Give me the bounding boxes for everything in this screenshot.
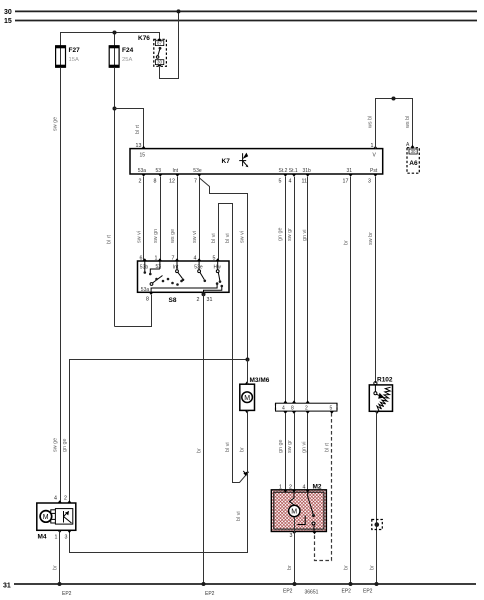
node splice arrow into pump return wire: [243, 472, 247, 477]
wire K7 pin11 31b down (gn vi): [307, 177, 309, 403]
svg-text:R102: R102: [377, 377, 393, 384]
node junction fuse rail: [113, 31, 117, 35]
svg-text:8: 8: [291, 406, 294, 412]
svg-text:EP2: EP2: [283, 589, 293, 595]
svg-text:4: 4: [282, 406, 285, 412]
connector A6 pin 30: [406, 142, 419, 173]
wire bus 31 (ground): [14, 583, 476, 585]
K7 pin 12 (Int): [169, 168, 180, 185]
svg-text:gn ge: gn ge: [62, 439, 68, 453]
wire bus 15: [15, 20, 477, 22]
wire K7 pin5 St.2 down (gn ge): [285, 177, 287, 403]
svg-text:br: br: [370, 565, 376, 570]
S8 internal contacts: [144, 261, 224, 292]
svg-text:15: 15: [140, 153, 146, 159]
svg-text:br: br: [344, 565, 350, 570]
wire K7 pin3 Pst to R102 (sw br): [375, 177, 377, 383]
S8 pin 4 (53e): [194, 256, 203, 271]
svg-text:sw vi: sw vi: [192, 231, 198, 243]
node junction on bus 30: [177, 9, 181, 13]
svg-text:M: M: [291, 509, 297, 516]
motor M4 windscreen wiper motor: [37, 496, 76, 541]
svg-text:sw gn: sw gn: [153, 229, 159, 243]
K7 pin 8 (53): [154, 168, 163, 185]
svg-text:17: 17: [343, 179, 349, 185]
svg-text:gn vi: gn vi: [302, 230, 308, 241]
svg-text:53a: 53a: [141, 287, 150, 293]
svg-text:30: 30: [411, 149, 416, 154]
connector bar X pins 4 8 2 5: [276, 400, 338, 414]
svg-text:1: 1: [55, 535, 58, 541]
wire K7 pin7 branch to washer pump M3/M6 (sw vi): [200, 177, 248, 360]
S8 pin 7 (Int): [172, 256, 180, 271]
svg-text:sw ge: sw ge: [53, 117, 59, 131]
svg-text:sw ge: sw ge: [53, 438, 59, 452]
wire M2 pin3 to ground EP2 (br): [294, 517, 296, 584]
svg-text:31b: 31b: [303, 168, 312, 174]
svg-text:1: 1: [155, 256, 158, 262]
wire M3/M6 return to M4 pin3 (br / bl vi): [70, 410, 248, 552]
K7 pin 5 (St.2): [279, 168, 288, 185]
S8 pin 6 (53b): [140, 256, 149, 271]
motor M3/M6 washer pump: [240, 377, 270, 413]
svg-text:11: 11: [302, 179, 308, 185]
svg-text:53a: 53a: [138, 168, 147, 174]
svg-text:M4: M4: [38, 534, 47, 541]
node junction pump feed: [246, 358, 250, 362]
switch S8 wiper column switch: [138, 261, 230, 304]
wire K7 pin17 31 to ground (br): [350, 177, 352, 584]
K7 pin 7 (53e): [193, 168, 202, 185]
K7 pin 1 (V) top: [371, 143, 378, 159]
svg-text:A6: A6: [409, 160, 418, 167]
svg-text:5: 5: [330, 406, 333, 412]
svg-text:S8: S8: [169, 297, 177, 304]
node splice 36651 box: [372, 520, 383, 530]
wire wash-wipe link M4 pin2 rail: [70, 360, 248, 503]
K7 pin 17 (31): [343, 168, 353, 185]
svg-text:15: 15: [4, 18, 12, 25]
svg-text:M3/M6: M3/M6: [250, 377, 270, 384]
wire K7 pin2 53a to S8 pin6 (sw vi): [143, 177, 145, 261]
S8 pin 1 (53): [155, 256, 163, 270]
svg-text:2: 2: [197, 297, 200, 303]
svg-text:br: br: [240, 447, 246, 452]
svg-text:St.1: St.1: [289, 168, 298, 174]
svg-text:br: br: [196, 448, 202, 453]
svg-text:25A: 25A: [122, 57, 132, 63]
wire K7 pin8 53 to S8 pin1 (sw gn): [160, 177, 162, 261]
svg-text:EP2: EP2: [205, 591, 215, 597]
svg-text:2: 2: [289, 485, 292, 491]
wire from bus 30 down to relay K76 terminal 30: [160, 11, 179, 78]
wire F27 to M4 pin4 (sw ge): [60, 67, 62, 502]
svg-text:13: 13: [136, 143, 142, 149]
node ground EP2 S8: [202, 582, 206, 586]
svg-text:K7: K7: [222, 158, 231, 165]
svg-text:4: 4: [289, 179, 292, 185]
wire branch to K7 pin13 (bl rt): [115, 109, 144, 149]
svg-text:br: br: [53, 565, 59, 570]
svg-text:M: M: [43, 514, 49, 521]
svg-text:bl rt: bl rt: [325, 443, 331, 452]
svg-text:M: M: [244, 395, 250, 402]
svg-text:gn ge: gn ge: [278, 228, 284, 242]
node ground EP2 M2: [293, 582, 297, 586]
wire K76 87 to fuse rail: [61, 33, 160, 46]
svg-text:sw vi: sw vi: [137, 231, 143, 243]
S8 pin 5 (Hw): [213, 256, 222, 271]
K7 pin 11 (31b): [302, 168, 312, 185]
svg-text:30: 30: [157, 60, 162, 65]
motor M2 rear wiper motor: [271, 484, 326, 535]
svg-text:8: 8: [154, 179, 157, 185]
svg-text:8: 8: [146, 297, 149, 303]
K7 pin 3 (Pst): [368, 168, 378, 185]
K7 pin 2 (53a): [138, 168, 147, 185]
svg-text:12: 12: [169, 179, 175, 185]
relay K7 box: [130, 149, 383, 174]
svg-text:53b: 53b: [140, 264, 149, 270]
K7 pin 4 (St.1): [289, 168, 298, 185]
svg-text:4: 4: [54, 496, 57, 502]
wire bar pin5 dashed to M2 (bl rt): [315, 413, 332, 561]
svg-text:4: 4: [194, 256, 197, 262]
svg-text:30: 30: [4, 9, 12, 16]
svg-text:6: 6: [140, 256, 143, 262]
svg-text:53: 53: [156, 168, 162, 174]
svg-text:EP2: EP2: [342, 589, 352, 595]
svg-text:31: 31: [207, 297, 213, 303]
wire S8 pin5 loop to bl vi drop: [219, 204, 248, 483]
svg-text:bl vi: bl vi: [225, 442, 231, 452]
svg-text:Pst: Pst: [370, 168, 378, 174]
svg-text:15A: 15A: [69, 57, 79, 63]
wire K7 pin4 St.1 down (sw gr): [294, 177, 296, 403]
relay K76: [138, 35, 166, 66]
svg-text:ws ge: ws ge: [170, 229, 176, 244]
wire bus 30: [15, 10, 477, 12]
svg-text:sw vi: sw vi: [240, 231, 246, 243]
svg-text:7: 7: [194, 179, 197, 185]
svg-text:3: 3: [368, 179, 371, 185]
node junction F24 branch: [113, 107, 117, 111]
svg-text:F27: F27: [69, 47, 81, 54]
wire bar pin4 to M2 pin1 (gn ge): [285, 413, 287, 490]
svg-text:3: 3: [290, 533, 293, 539]
svg-text:K76: K76: [138, 35, 150, 42]
S8 pin 8 (53a) bottom: [141, 287, 154, 303]
node ground EP2 for pin17: [349, 582, 353, 586]
svg-text:Int: Int: [173, 264, 179, 270]
svg-text:87: 87: [157, 41, 162, 46]
svg-text:31: 31: [347, 168, 353, 174]
svg-text:53e: 53e: [193, 168, 202, 174]
svg-text:2: 2: [305, 406, 308, 412]
svg-text:ws bl: ws bl: [368, 116, 374, 129]
svg-text:br: br: [344, 240, 350, 245]
wire S8 pin2/31 to ground EP2 (br): [203, 294, 205, 584]
wire R102 to ground (br): [376, 411, 378, 584]
svg-text:EP2: EP2: [62, 591, 72, 597]
svg-text:bl rt: bl rt: [107, 235, 113, 244]
wire K7 pin1 to connector A6 (ws bl): [376, 99, 413, 149]
wire bar pin8 to M2 pin2 (sw gr): [294, 413, 296, 490]
svg-text:F24: F24: [122, 47, 134, 54]
node ground EP2 M4: [58, 582, 62, 586]
svg-text:31: 31: [3, 583, 11, 590]
wire K7 pin12 Int to S8 pin7 (ws ge): [177, 177, 179, 261]
op-amp K7 internal symbol: [239, 153, 248, 168]
svg-text:Int: Int: [173, 168, 179, 174]
wire stub F24 top: [114, 33, 116, 46]
svg-text:bl vi: bl vi: [211, 233, 217, 243]
svg-text:1: 1: [371, 143, 374, 149]
svg-text:sw gr: sw gr: [287, 228, 293, 241]
svg-text:4: 4: [303, 485, 306, 491]
svg-text:5: 5: [213, 256, 216, 262]
K7 pin 13 (15) top: [136, 143, 146, 159]
svg-text:5: 5: [279, 179, 282, 185]
wire F24 down (bl rt): [114, 67, 116, 326]
fuse F24 25A: [109, 45, 133, 67]
svg-text:gn ge: gn ge: [278, 440, 284, 454]
svg-text:2: 2: [64, 496, 67, 502]
svg-text:bl vi: bl vi: [225, 233, 231, 243]
svg-text:br: br: [287, 565, 293, 570]
wire bar pin2 to M2 pin4 (gn vi): [307, 413, 309, 490]
node ground EP2 R102: [375, 582, 379, 586]
wire M4 pin1 to ground EP2 (br): [59, 531, 61, 584]
svg-text:bl vi: bl vi: [236, 511, 242, 521]
fuse F27 15A: [56, 45, 80, 67]
svg-text:sw gr: sw gr: [287, 440, 293, 453]
svg-text:36651: 36651: [305, 590, 319, 596]
svg-text:gn vi: gn vi: [302, 442, 308, 453]
wire M3/M6 top stub: [247, 360, 249, 385]
svg-text:2: 2: [139, 179, 142, 185]
resistor R102 intermittent delay: [369, 377, 393, 415]
svg-text:3: 3: [65, 535, 68, 541]
svg-text:1: 1: [279, 485, 282, 491]
S8 pin 2/31 bottom: [197, 292, 213, 303]
wire F24 line to S8 pin8: [115, 295, 152, 327]
svg-text:sw br: sw br: [368, 232, 374, 245]
svg-text:7: 7: [172, 256, 175, 262]
svg-text:EP2: EP2: [363, 589, 373, 595]
wire K7 pin7 53e to S8 pin4 (sw vi): [199, 177, 201, 261]
svg-text:ws bl: ws bl: [405, 116, 411, 129]
svg-text:bl rt: bl rt: [135, 125, 141, 134]
svg-text:St.2: St.2: [279, 168, 288, 174]
node junction on V wire: [392, 97, 396, 101]
